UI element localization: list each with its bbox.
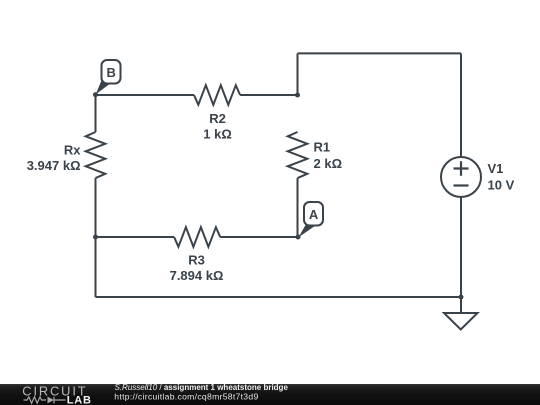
svg-text:R2: R2: [209, 111, 226, 126]
svg-text:Rx: Rx: [64, 143, 81, 158]
resistor R1 zigzag: [288, 132, 308, 178]
wire top rail: [298, 52, 462, 54]
wire top rail down to V1 plus terminal: [460, 53, 462, 157]
wire node B down to Rx top lead: [95, 95, 97, 132]
wire bottom rail: [96, 296, 462, 298]
junction dot bottom rail / ground: [459, 295, 464, 300]
resistor R3 zigzag: [174, 227, 220, 247]
svg-text:LAB: LAB: [67, 394, 92, 405]
svg-text:3.947 kΩ: 3.947 kΩ: [27, 158, 81, 173]
V1 minus sign: [454, 184, 469, 186]
wire ground stem: [460, 297, 462, 313]
svg-text:A: A: [309, 207, 319, 222]
junction dot left Rx/R3: [93, 235, 98, 240]
svg-text:1 kΩ: 1 kΩ: [203, 127, 232, 142]
voltage source V1 circle: [441, 157, 481, 197]
svg-text:R1: R1: [314, 140, 331, 155]
svg-text:2 kΩ: 2 kΩ: [314, 156, 343, 171]
svg-text:7.894 kΩ: 7.894 kΩ: [170, 268, 224, 283]
wire R3 right lead to node A: [220, 236, 297, 238]
svg-text:http://circuitlab.com/cq8mr58t: http://circuitlab.com/cq8mr58t7t3d9: [114, 392, 258, 402]
junction dot R2/R1 top: [295, 93, 300, 98]
resistor Rx zigzag: [86, 132, 106, 178]
svg-text:B: B: [107, 65, 116, 80]
wire left junction to R3 left lead: [96, 236, 175, 238]
wire V1 minus terminal down to bottom rail: [460, 197, 462, 297]
svg-text:10 V: 10 V: [488, 177, 515, 192]
footer bar: [0, 384, 540, 405]
node B flag tail: [96, 79, 111, 95]
node B flag balloon: [102, 60, 121, 84]
node A flag tail: [299, 225, 315, 238]
node A flag balloon: [304, 202, 323, 226]
ground symbol triangle: [444, 313, 478, 330]
junction dot at node B: [93, 92, 98, 97]
resistor R2 zigzag: [194, 85, 240, 105]
svg-text:V1: V1: [488, 161, 504, 176]
CircuitLab logo resistor-diode icon: [24, 397, 66, 404]
junction dot at node A: [296, 235, 301, 240]
wire junction up to top rail: [297, 53, 299, 95]
V1 plus sign: [454, 161, 469, 176]
wire node B to R2 left lead: [96, 94, 195, 96]
wire R2 right lead to junction: [240, 94, 297, 96]
svg-text:R3: R3: [188, 252, 205, 267]
wire node A up to R1 bottom lead: [297, 178, 299, 237]
wire Rx bottom lead down to bottom rail: [95, 178, 97, 297]
